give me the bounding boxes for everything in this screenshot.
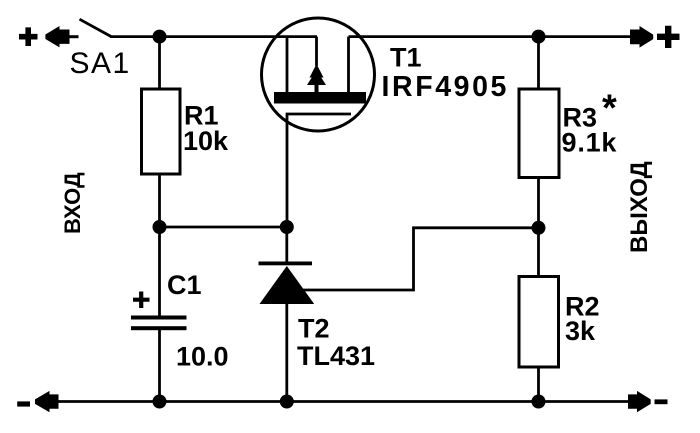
T2 cathode bar <box>259 262 313 266</box>
input arrow (left-pointing) <box>45 26 69 47</box>
plus sign output terminal <box>657 26 680 48</box>
minus sign bottom-right terminal <box>655 399 668 404</box>
T1 source lead vertical <box>286 37 289 93</box>
wire C1 bottom lead <box>158 330 161 402</box>
T2 anode triangle <box>260 266 315 304</box>
svg-text:9.1k: 9.1k <box>562 128 618 158</box>
plus sign of capacitor C1 <box>133 292 150 309</box>
node dot bottom-right <box>532 395 546 409</box>
svg-text:TL431: TL431 <box>297 341 375 371</box>
capacitor C1 bottom plate <box>131 326 187 330</box>
wire R3 bottom lead <box>537 178 540 228</box>
wire R3 top lead <box>537 37 540 90</box>
wire R1 bottom lead <box>158 174 161 227</box>
resistor R3 <box>519 89 559 178</box>
wire mid horizontal <box>160 226 287 229</box>
node dot divider junction <box>532 221 546 235</box>
svg-text:T1: T1 <box>390 43 422 73</box>
T1 gate line <box>287 114 351 227</box>
svg-text:ВХОД: ВХОД <box>60 172 85 234</box>
node dot mid-left <box>153 220 167 234</box>
T1 middle lead vertical <box>315 37 318 66</box>
wire R2 bottom lead <box>537 367 540 402</box>
bottom-right arrow (right-pointing) <box>628 391 651 412</box>
bottom-left arrow (left-pointing) <box>35 391 59 412</box>
node dot bottom-center <box>280 395 294 409</box>
wire R1 top lead <box>158 37 161 90</box>
wire R2 top lead <box>537 228 540 277</box>
svg-text:SA1: SA1 <box>70 47 131 80</box>
svg-text:10.0: 10.0 <box>176 342 229 372</box>
svg-text:*: * <box>602 88 617 130</box>
svg-text:T2: T2 <box>298 314 330 344</box>
wire stub after input arrow <box>69 35 79 38</box>
node dot top-right junction <box>532 30 546 44</box>
node dot mid-center <box>280 220 294 234</box>
svg-text:ВЫХОД: ВЫХОД <box>626 161 653 253</box>
wire T2 reference to divider <box>300 228 539 290</box>
switch SA1 blade <box>80 19 111 36</box>
wire T2 anode lead <box>285 304 288 402</box>
wire T2 cathode lead <box>285 227 288 264</box>
capacitor C1 top plate <box>131 316 187 320</box>
T1 drain lead vertical <box>347 37 350 93</box>
minus sign bottom-left terminal <box>17 401 30 406</box>
plus sign input terminal <box>19 27 38 46</box>
wire top rail right segment <box>349 35 632 38</box>
T1 arrow stem <box>315 83 319 93</box>
svg-text:C1: C1 <box>167 270 202 300</box>
wire top rail left segment <box>110 35 317 38</box>
transistor T1 circle <box>262 18 375 131</box>
output arrow (right-pointing) <box>630 26 653 48</box>
T1 arrow upper triangle <box>310 64 324 78</box>
T1 channel bar <box>274 92 366 104</box>
svg-text:IRF4905: IRF4905 <box>382 71 510 103</box>
resistor R2 <box>519 277 559 368</box>
resistor R1 <box>142 89 181 174</box>
wire C1 top lead <box>158 227 161 316</box>
node dot top-left junction <box>153 30 167 44</box>
svg-text:10k: 10k <box>183 126 229 156</box>
svg-text:3k: 3k <box>565 316 596 346</box>
wire bottom rail <box>57 400 631 403</box>
T1 arrow lower triangle <box>307 70 326 85</box>
node dot bottom-left <box>153 395 167 409</box>
